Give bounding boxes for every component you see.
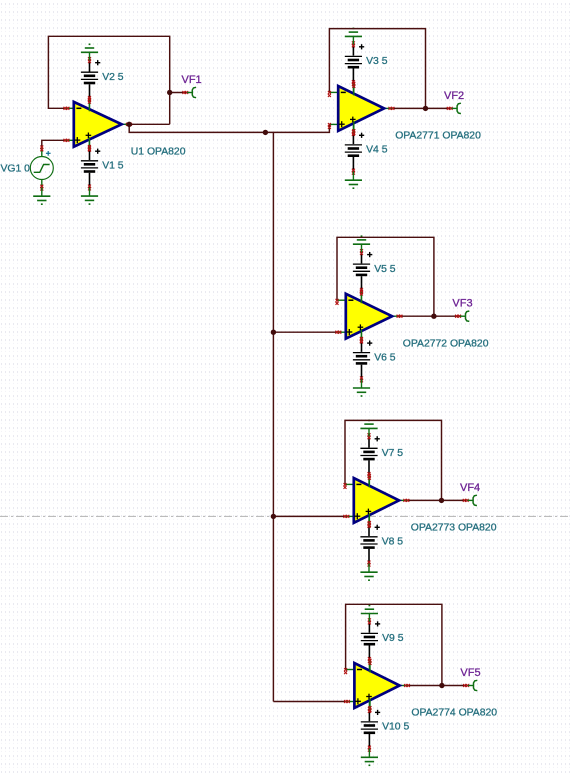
- label V2 value: [102, 72, 124, 83]
- ground below V10: [361, 749, 378, 766]
- svg-text:V8 5: V8 5: [382, 537, 404, 548]
- label VF3: [452, 298, 472, 310]
- label V1 value: [102, 160, 124, 171]
- junction bus top node: [263, 130, 268, 135]
- ground above V5 stem: [361, 244, 363, 252]
- wire V2 to U1 positive supply pin: [89, 99, 91, 111]
- junction OPA2772 output node: [431, 314, 436, 319]
- battery V10: [361, 707, 380, 752]
- wire VG1 to U1 non-inverting input: [42, 140, 65, 148]
- wire OPA2772 feedback loop: [337, 237, 434, 316]
- label OPA2772 OPA820: [403, 338, 489, 349]
- junction OPA2771 output node: [423, 106, 428, 111]
- battery V8: [360, 522, 379, 567]
- label V6 value: [374, 352, 396, 363]
- voltage probe VF1: [182, 87, 196, 97]
- ground below VG1: [33, 188, 50, 205]
- wire V9 to OPA2774 positive supply: [368, 660, 370, 672]
- label VG1 value: [1, 164, 31, 175]
- svg-text:V10 5: V10 5: [382, 722, 409, 733]
- voltage probe VF4: [442, 495, 477, 505]
- battery V9: [361, 618, 380, 663]
- svg-text:V7 5: V7 5: [382, 448, 404, 459]
- wire OPA2771 output: [391, 107, 425, 109]
- label V5 value: [374, 264, 396, 275]
- label V8 value: [382, 537, 404, 548]
- junction OPA2773 output node: [439, 498, 444, 503]
- op-amp OPA2772 OPA820: [335, 290, 402, 343]
- wire V7 to OPA2773 positive supply: [368, 475, 370, 487]
- label V7 value: [382, 448, 404, 459]
- wire bus to OPA2773 non-inverting input: [273, 515, 345, 517]
- svg-text:VF5: VF5: [460, 667, 480, 679]
- wire U1 output to feedback corner: [128, 123, 170, 125]
- wire bus to OPA2772 non-inverting input: [273, 331, 337, 333]
- wire OPA2772 output: [399, 315, 434, 317]
- wire OPA2772 negative supply to V6: [361, 329, 363, 340]
- label OPA2773 OPA820: [411, 523, 497, 534]
- wire V3 to OPA2771 positive supply: [352, 83, 354, 95]
- ground below V1: [81, 188, 98, 205]
- svg-text:V4 5: V4 5: [366, 145, 388, 156]
- junction bus OPA2772 node: [271, 330, 276, 335]
- label VF2: [444, 90, 464, 102]
- svg-text:OPA2772 OPA820: OPA2772 OPA820: [403, 338, 489, 349]
- label VF5: [460, 667, 480, 679]
- label V9 value: [382, 633, 404, 644]
- ground above V7 stem: [368, 428, 370, 436]
- voltage probe VF2: [426, 103, 461, 113]
- wire OPA2771 feedback loop: [329, 29, 425, 109]
- wire U1 negative supply pin to V1: [89, 137, 91, 148]
- op-amp OPA2773 OPA820: [343, 474, 409, 527]
- svg-text:V9 5: V9 5: [382, 633, 404, 644]
- svg-text:V1 5: V1 5: [102, 160, 124, 171]
- label VF1: [182, 74, 202, 86]
- wire U1 feedback loop (output to inverting input via VF1 node): [48, 36, 169, 124]
- battery V2: [81, 57, 100, 102]
- wire bus node to OPA2771 non-inverting input: [265, 124, 329, 132]
- svg-text:OPA2774 OPA820: OPA2774 OPA820: [411, 708, 497, 719]
- ground above V2: [81, 44, 98, 60]
- svg-text:V6 5: V6 5: [374, 352, 396, 363]
- wire OPA2774 feedback loop: [346, 604, 442, 685]
- voltage probe VF5: [442, 680, 477, 690]
- ground below V8: [360, 564, 377, 581]
- battery V3: [345, 41, 364, 86]
- label VF4: [460, 482, 480, 494]
- svg-text:VF4: VF4: [460, 482, 480, 494]
- svg-text:V5 5: V5 5: [374, 264, 396, 275]
- wire bus to OPA2774 non-inverting input: [273, 701, 345, 703]
- svg-text:OPA2771 OPA820: OPA2771 OPA820: [395, 131, 481, 142]
- label OPA2771 OPA820: [395, 131, 481, 142]
- ground above V9 (bars): [361, 606, 378, 614]
- wire OPA2773 negative supply to V8: [368, 513, 370, 524]
- wire OPA2774 negative supply to V10: [368, 699, 370, 710]
- wire V5 to OPA2772 positive supply: [361, 291, 363, 303]
- op-amp OPA2771 OPA820: [328, 82, 395, 135]
- junction U1 output node: [127, 122, 132, 127]
- junction OPA2774 output node: [439, 683, 444, 688]
- ground above V9 stem: [368, 614, 370, 622]
- label V4 value: [366, 145, 388, 156]
- svg-text:VF1: VF1: [182, 74, 202, 86]
- op-amp U1 OPA820: [64, 98, 132, 151]
- voltage probe VF3: [434, 311, 469, 321]
- wire OPA2773 output: [406, 499, 442, 501]
- svg-text:VF2: VF2: [444, 90, 464, 102]
- wire OPA2774 output: [407, 685, 442, 687]
- svg-text:OPA2773 OPA820: OPA2773 OPA820: [411, 523, 497, 534]
- ground above V3 stem: [352, 36, 354, 44]
- battery V5: [353, 249, 372, 294]
- wire VF1 probe tap: [170, 92, 186, 94]
- page boundary dashed line: [0, 515, 571, 517]
- label V3 value: [366, 56, 388, 67]
- wire OPA2771 negative supply to V4: [352, 121, 354, 132]
- battery V6: [353, 338, 372, 383]
- ground below V4: [345, 172, 362, 189]
- battery V4: [345, 130, 364, 175]
- svg-text:VF3: VF3: [452, 298, 472, 310]
- wire OPA2773 feedback loop: [345, 420, 442, 500]
- ground below V6: [353, 379, 370, 396]
- svg-text:V2 5: V2 5: [102, 72, 124, 83]
- junction bus OPA2773 node: [271, 514, 276, 519]
- label V10 value: [382, 722, 409, 733]
- op-amp OPA2774 OPA820: [344, 659, 410, 712]
- junction VF1 node: [167, 90, 172, 95]
- wire U1 output branch down to distribution bus: [129, 124, 265, 132]
- voltage generator VG1: [30, 146, 53, 191]
- ground above V7 (bars): [360, 420, 377, 428]
- ground above V3 (bars): [345, 28, 362, 36]
- ground above V5 (bars): [353, 236, 370, 244]
- battery V7: [360, 433, 379, 478]
- label U1 OPA820: [131, 147, 186, 158]
- svg-text:V3 5: V3 5: [366, 56, 388, 67]
- svg-text:U1 OPA820: U1 OPA820: [131, 147, 186, 158]
- battery V1: [81, 146, 100, 191]
- wire vertical distribution bus: [272, 132, 274, 701]
- label OPA2774 OPA820: [411, 708, 497, 719]
- svg-text:VG1 0: VG1 0: [1, 164, 31, 175]
